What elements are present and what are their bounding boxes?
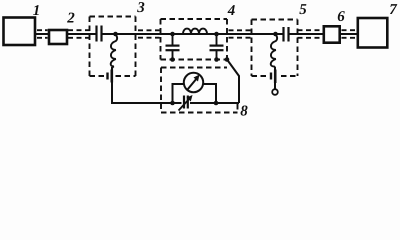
wire L1 to bottom bus bbox=[111, 67, 113, 104]
svg-text:6: 6 bbox=[337, 9, 345, 25]
node A (left shunt cap junction) bbox=[170, 32, 175, 37]
svg-text:2: 2 bbox=[66, 11, 75, 27]
battery B1 (in box 3 bottom edge) bbox=[106, 73, 108, 80]
node (loop left on bus) bbox=[170, 101, 175, 106]
node (loop right on bus) bbox=[214, 101, 219, 106]
coax shield dashes box1-box2 bbox=[37, 29, 48, 31]
inductor L1 (shunt choke, box 3) bbox=[111, 35, 117, 70]
variable capacitor C5 (on bottom bus) bbox=[183, 96, 185, 109]
box 6 (attenuator block) bbox=[324, 26, 340, 42]
coax shield dashes box2-box3 bbox=[68, 29, 91, 31]
capacitor C2 (series, box 5) bbox=[282, 27, 284, 42]
coax shield dashes box6-box7 bbox=[342, 29, 357, 31]
coax wire box6-box7 : center conductor bbox=[341, 33, 357, 35]
coax shield dashes box3-box4 bbox=[138, 29, 160, 31]
node at box4 corner bbox=[225, 57, 230, 62]
coax wire box2-box3 : center conductor bbox=[68, 33, 96, 35]
box 2 (attenuator block) bbox=[49, 30, 67, 44]
meter needle arrow bbox=[188, 78, 198, 90]
node in box 5 bbox=[273, 32, 278, 37]
main wire C1 to C2 bbox=[103, 33, 283, 35]
capacitor C3 (left shunt, box 4) bbox=[172, 34, 174, 45]
box 1 (generator block) bbox=[4, 18, 36, 46]
terminal (open circle below battery B2) bbox=[272, 89, 278, 95]
variable capacitor arrow bbox=[179, 98, 191, 111]
svg-text:3: 3 bbox=[136, 0, 145, 16]
meter loop wires bbox=[173, 84, 184, 103]
dashed box 8 (measuring device enclosure) bbox=[161, 68, 238, 113]
svg-text:1: 1 bbox=[33, 3, 41, 19]
svg-text:5: 5 bbox=[299, 2, 307, 18]
dashed box 4 (filter section enclosure) bbox=[161, 19, 228, 60]
svg-text:4: 4 bbox=[227, 3, 236, 19]
wire diagonal from box4 corner down bbox=[227, 60, 239, 104]
capacitor C1 (series, in box 3) bbox=[95, 26, 97, 42]
inductor L3 (shunt choke, box 5) bbox=[271, 35, 277, 70]
wire L3 to battery bbox=[274, 67, 276, 90]
coax shield dashes box5-box6 bbox=[298, 29, 323, 31]
dashed box 3 (input bias network enclosure) bbox=[90, 17, 136, 77]
capacitor C4 (right shunt, box 4) bbox=[216, 34, 218, 45]
node B (right shunt cap junction) bbox=[214, 32, 219, 37]
svg-text:7: 7 bbox=[389, 2, 397, 18]
dashed box 5 (output bias network enclosure) bbox=[252, 20, 298, 77]
inductor L2 (series, box 4) bbox=[183, 29, 207, 34]
coax wire box1-box2 : center conductor bbox=[36, 33, 48, 35]
svg-text:8: 8 bbox=[240, 104, 248, 120]
coax shield dashes box4-box5 bbox=[229, 29, 251, 31]
meter M1 (galvanometer circle) bbox=[184, 73, 203, 92]
box 7 (indicator block) bbox=[358, 18, 388, 48]
node in box 3 bbox=[113, 32, 118, 37]
main wire C2 to box 6 bbox=[290, 33, 323, 35]
battery B2 (in box 5 bottom edge) bbox=[270, 73, 272, 80]
bottom bus wire bbox=[112, 102, 182, 104]
